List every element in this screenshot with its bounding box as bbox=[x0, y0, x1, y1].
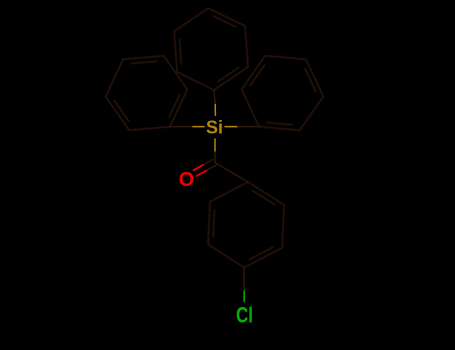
phenyl ring left (on Si) bbox=[106, 56, 188, 130]
svg-text:Cl: Cl bbox=[236, 303, 253, 328]
bond Si-C(right phenyl), carbon half (dark) bbox=[237, 126, 259, 128]
svg-text:Si: Si bbox=[206, 116, 223, 137]
double bond C=O, line 2 carbon half (dark) bbox=[206, 165, 216, 170]
bond C(carbonyl)-C1(aryl) bbox=[215, 163, 248, 183]
bond Si-C(left phenyl), Si half (orange) bbox=[193, 126, 204, 128]
double bond C=O, line 2 oxygen half (red) bbox=[197, 171, 207, 176]
double bond C=O, line 1 oxygen half (red) bbox=[193, 165, 203, 170]
bond Si-C(carbonyl), Si half (orange) bbox=[214, 139, 216, 152]
bond Si-C(carbonyl), carbon half (dark) bbox=[214, 152, 216, 163]
bond Si-C(top phenyl), Si half (orange) bbox=[214, 105, 216, 116]
bond Si-C(left phenyl), carbon half (dark) bbox=[170, 126, 193, 128]
phenyl ring top (on Si) bbox=[174, 8, 248, 90]
4-chlorophenyl ring bottom bbox=[208, 182, 284, 268]
bond C4-Cl, chlorine half (green) bbox=[243, 291, 245, 302]
bond Si-C(top phenyl), carbon half (dark) bbox=[214, 90, 215, 105]
double bond C=O, line 1 carbon half (dark) bbox=[203, 160, 213, 165]
svg-text:O: O bbox=[179, 168, 195, 191]
bond C4-Cl, carbon half (dark) bbox=[243, 268, 245, 292]
bond Si-C(right phenyl), Si half (orange) bbox=[225, 126, 237, 128]
phenyl ring right (on Si) bbox=[242, 56, 324, 130]
